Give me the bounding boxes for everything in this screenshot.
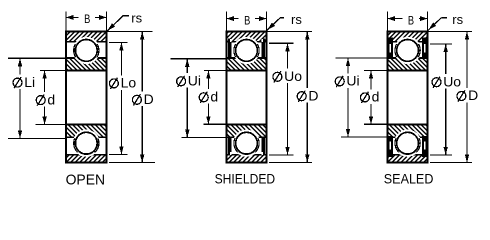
svg-text:Li: Li bbox=[24, 74, 35, 90]
svg-text:D: D bbox=[308, 87, 318, 103]
svg-text:d: d bbox=[210, 89, 218, 105]
svg-text:Lo: Lo bbox=[121, 75, 137, 91]
svg-text:Uo: Uo bbox=[284, 68, 302, 84]
svg-text:rs: rs bbox=[291, 12, 302, 27]
svg-text:rs: rs bbox=[452, 12, 463, 27]
svg-text:OPEN: OPEN bbox=[66, 171, 106, 188]
svg-text:Ui: Ui bbox=[346, 73, 359, 89]
svg-text:B: B bbox=[408, 13, 414, 27]
svg-text:D: D bbox=[144, 91, 154, 107]
svg-text:B: B bbox=[84, 12, 90, 26]
svg-text:Uo: Uo bbox=[443, 73, 461, 89]
svg-text:D: D bbox=[468, 87, 478, 103]
svg-text:SEALED: SEALED bbox=[384, 170, 434, 186]
svg-text:d: d bbox=[372, 89, 380, 105]
svg-text:d: d bbox=[47, 91, 55, 107]
svg-text:rs: rs bbox=[131, 10, 142, 25]
svg-text:B: B bbox=[244, 13, 250, 27]
svg-text:SHIELDED: SHIELDED bbox=[215, 170, 276, 186]
svg-text:Ui: Ui bbox=[188, 73, 201, 89]
